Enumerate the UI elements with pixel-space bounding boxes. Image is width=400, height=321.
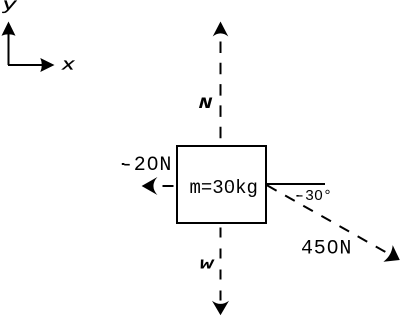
svg-text:y: y xyxy=(1,0,17,15)
svg-text:-20N: -20N xyxy=(121,154,172,177)
svg-text:450N: 450N xyxy=(301,238,352,261)
svg-text:w: w xyxy=(200,255,216,274)
svg-text:m=30kg: m=30kg xyxy=(190,177,258,199)
svg-text:N: N xyxy=(199,95,213,113)
svg-text:-30°: -30° xyxy=(296,188,332,205)
svg-text:x: x xyxy=(61,56,75,75)
